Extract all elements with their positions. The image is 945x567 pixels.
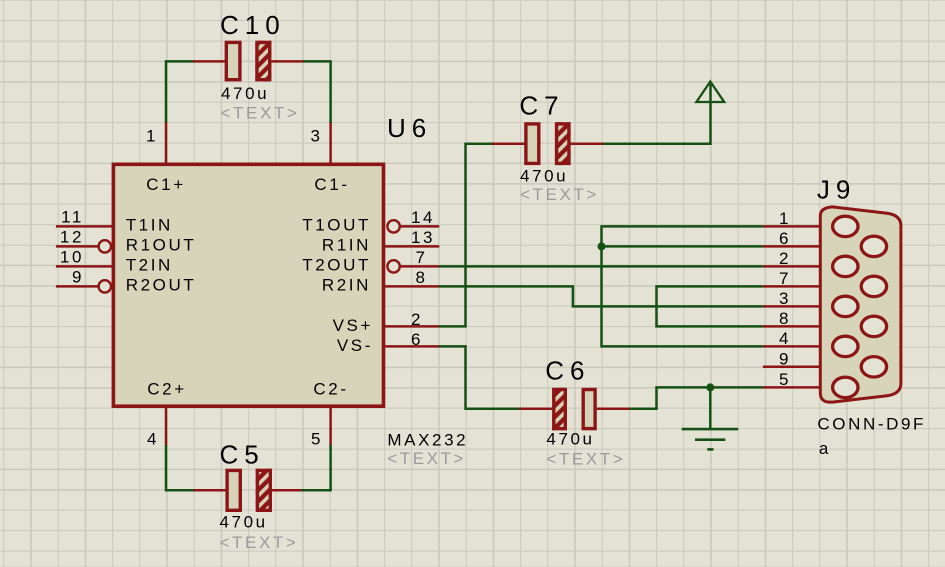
svg-text:5: 5 bbox=[311, 430, 323, 449]
capacitor C10 right plate (hatched) bbox=[255, 41, 271, 82]
svg-text:U6: U6 bbox=[387, 113, 432, 143]
svg-text:6: 6 bbox=[779, 229, 791, 248]
capacitor C7 left plate bbox=[526, 124, 539, 163]
svg-text:C10: C10 bbox=[220, 10, 286, 40]
svg-text:T2IN: T2IN bbox=[126, 256, 173, 275]
svg-text:<TEXT>: <TEXT> bbox=[220, 533, 299, 552]
J9 pin stub 8 (red) bbox=[763, 325, 873, 328]
svg-text:14: 14 bbox=[411, 208, 435, 227]
capacitor C7 left lead (red) bbox=[492, 143, 525, 146]
loopback wire J9 pins 7-8 (green) bbox=[657, 286, 763, 326]
J9 pin stub 1 (red) bbox=[763, 225, 845, 228]
pin 6 VS- stub bbox=[385, 345, 439, 348]
svg-text:C2+: C2+ bbox=[147, 380, 186, 399]
capacitor C7 right lead (red) bbox=[571, 143, 604, 146]
ground stem bbox=[709, 387, 712, 429]
pin 1 C1+ vertical stub bbox=[165, 121, 168, 164]
pin 8 R2IN stub bbox=[385, 285, 439, 288]
svg-text:9: 9 bbox=[72, 268, 84, 287]
svg-text:8: 8 bbox=[779, 309, 791, 328]
wire C5 left (green) bbox=[166, 445, 194, 490]
J9 socket 5 bbox=[833, 377, 858, 397]
capacitor C5 right lead (red) bbox=[272, 489, 302, 492]
J9 pin stub 7 (red) bbox=[763, 285, 873, 288]
wire R2IN to J9 pin3 (green) bbox=[439, 286, 763, 306]
ground bar 3 bbox=[707, 448, 713, 451]
connector J9 body CONN-D9F bbox=[820, 207, 901, 402]
wire C6 to ground rail (green) bbox=[630, 387, 763, 408]
capacitor C5 left plate bbox=[227, 470, 240, 510]
svg-text:VS+: VS+ bbox=[333, 316, 373, 335]
wire T2OUT to J9 pin2 (green) bbox=[439, 265, 763, 268]
junction dot at ground node bbox=[706, 383, 714, 391]
svg-text:4: 4 bbox=[779, 329, 791, 348]
svg-text:1: 1 bbox=[146, 126, 158, 145]
svg-text:T1OUT: T1OUT bbox=[302, 216, 371, 235]
pin 14 T1OUT stub bbox=[400, 225, 439, 228]
pin 5 C2- vertical stub bbox=[329, 406, 332, 446]
svg-text:2: 2 bbox=[779, 249, 791, 268]
J9 socket 7 bbox=[861, 276, 886, 296]
svg-text:<TEXT>: <TEXT> bbox=[387, 449, 466, 468]
J9 socket 6 bbox=[861, 236, 886, 256]
power symbol arrow bbox=[696, 82, 724, 103]
svg-text:1: 1 bbox=[779, 209, 791, 228]
J9 socket 3 bbox=[833, 296, 858, 316]
svg-text:CONN-D9F: CONN-D9F bbox=[817, 414, 926, 433]
svg-text:470u: 470u bbox=[520, 166, 568, 185]
J9 pin stub 4 (red) bbox=[763, 345, 845, 348]
svg-text:6: 6 bbox=[411, 330, 423, 349]
pin 10 T2IN stub bbox=[56, 265, 112, 268]
wire VS+ to C7 riser (green) bbox=[439, 144, 492, 327]
capacitor C10 right lead (red) bbox=[271, 60, 303, 63]
svg-text:13: 13 bbox=[411, 228, 435, 247]
ground bar 2 bbox=[695, 438, 725, 441]
svg-text:VS-: VS- bbox=[337, 336, 373, 355]
capacitor C6 right plate bbox=[583, 390, 595, 429]
svg-text:R2OUT: R2OUT bbox=[126, 276, 197, 295]
wire C5 right (green) bbox=[301, 445, 331, 490]
J9 socket 1 bbox=[833, 216, 858, 236]
svg-text:MAX232: MAX232 bbox=[387, 430, 468, 449]
svg-text:12: 12 bbox=[60, 228, 84, 247]
svg-text:5: 5 bbox=[779, 370, 791, 389]
capacitor C10 left plate bbox=[226, 42, 240, 79]
J9 socket 4 bbox=[833, 336, 858, 356]
pin 9 R2OUT stub bbox=[56, 285, 98, 288]
svg-text:470u: 470u bbox=[220, 512, 268, 531]
svg-text:<TEXT>: <TEXT> bbox=[546, 449, 625, 468]
pin 2 VS+ stub bbox=[385, 325, 439, 328]
svg-text:a: a bbox=[819, 439, 831, 458]
svg-text:C1+: C1+ bbox=[146, 175, 185, 194]
svg-text:T2OUT: T2OUT bbox=[302, 256, 371, 275]
svg-text:R2IN: R2IN bbox=[322, 276, 371, 295]
svg-text:J9: J9 bbox=[817, 174, 856, 204]
svg-text:C6: C6 bbox=[545, 356, 590, 386]
J9 pin stub 3 (red) bbox=[763, 305, 845, 308]
wire C7 to power arrow (green) bbox=[603, 84, 711, 144]
svg-text:470u: 470u bbox=[221, 84, 269, 103]
svg-text:2: 2 bbox=[411, 310, 423, 329]
J9 socket 8 bbox=[861, 316, 886, 336]
pin 14 T1OUT inversion bubble bbox=[387, 220, 399, 232]
ground bar 1 bbox=[682, 428, 739, 431]
svg-text:R1IN: R1IN bbox=[322, 236, 371, 255]
J9 socket 9 bbox=[861, 357, 886, 377]
J9 pin stub 9 (red) bbox=[763, 366, 873, 369]
pin 3 C1- vertical stub bbox=[329, 121, 332, 164]
pin 11 T1IN stub bbox=[56, 225, 112, 228]
svg-text:10: 10 bbox=[60, 248, 84, 267]
svg-text:4: 4 bbox=[147, 430, 159, 449]
J9 socket 2 bbox=[833, 256, 858, 276]
J9 pin stub 6 (red) bbox=[763, 245, 873, 248]
svg-text:R1OUT: R1OUT bbox=[126, 236, 197, 255]
capacitor C5 left lead (red) bbox=[194, 489, 227, 492]
IC U6 MAX232 body bbox=[113, 164, 383, 406]
svg-text:T1IN: T1IN bbox=[126, 216, 173, 235]
capacitor C6 right lead (red) bbox=[597, 407, 630, 410]
svg-text:9: 9 bbox=[779, 350, 791, 369]
pin 9 inversion bubble bbox=[99, 280, 111, 292]
pin 12 R1OUT stub bbox=[56, 245, 98, 248]
svg-text:C1-: C1- bbox=[314, 175, 349, 194]
J9 pin stub 2 (red) bbox=[763, 265, 845, 268]
capacitor C5 right plate (hatched) bbox=[256, 469, 272, 512]
J9 pin stub 5 (red) bbox=[763, 386, 845, 389]
svg-text:<TEXT>: <TEXT> bbox=[520, 185, 599, 204]
svg-text:11: 11 bbox=[61, 208, 84, 227]
svg-text:470u: 470u bbox=[546, 430, 594, 449]
capacitor C10 left lead (red) bbox=[193, 60, 225, 63]
wire C10 left (green) bbox=[166, 61, 194, 122]
svg-text:3: 3 bbox=[779, 289, 791, 308]
pin 4 C2+ vertical stub bbox=[165, 406, 168, 446]
pin 7 T2OUT stub bbox=[400, 265, 439, 268]
pin 13 R1IN stub bbox=[385, 245, 439, 248]
pin 12 inversion bubble bbox=[99, 240, 111, 252]
svg-text:C5: C5 bbox=[220, 440, 265, 470]
loopback branch to J9 pin 6 (green) bbox=[602, 245, 763, 248]
wire VS- to C6 (green) bbox=[439, 346, 520, 408]
svg-text:8: 8 bbox=[415, 268, 427, 287]
pin 7 T2OUT inversion bubble bbox=[387, 260, 399, 272]
svg-text:<TEXT>: <TEXT> bbox=[221, 104, 300, 123]
svg-text:7: 7 bbox=[415, 248, 427, 267]
capacitor C6 left lead (red) bbox=[519, 407, 553, 410]
capacitor C6 left plate (hatched) bbox=[552, 388, 567, 431]
svg-text:7: 7 bbox=[779, 269, 791, 288]
wire C10 right (green) bbox=[303, 61, 331, 122]
loopback wire J9 pins 1-6-4 (green) bbox=[602, 226, 763, 346]
svg-text:3: 3 bbox=[310, 126, 322, 145]
capacitor C7 right plate (hatched) bbox=[555, 122, 571, 165]
svg-text:C7: C7 bbox=[519, 91, 564, 121]
svg-text:C2-: C2- bbox=[313, 380, 348, 399]
junction dot loopback bbox=[598, 242, 606, 250]
